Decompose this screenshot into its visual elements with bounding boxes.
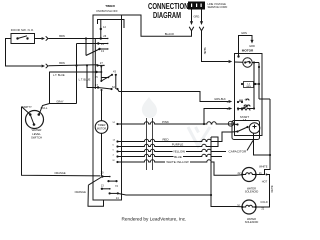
wire FULL contact to GRAY loop [40, 104, 50, 113]
wire pink branch to start switch [204, 122, 232, 124]
svg-text:ORANGE: ORANGE [75, 190, 87, 194]
wire ORANGE loop bottom left [75, 185, 104, 206]
protector right lead [252, 62, 259, 64]
svg-text:MOTOR: MOTOR [97, 128, 106, 131]
water level switch [22, 105, 48, 139]
wire 43 down to 62 [115, 75, 117, 89]
svg-text:SWITCH: SWITCH [31, 136, 42, 140]
blade from branch to 13 [86, 49, 100, 56]
wire branch x86 down to blade [85, 39, 87, 56]
hot water solenoid [238, 168, 268, 194]
cold water solenoid [237, 200, 268, 224]
wire timer motor to terminal 10 [101, 133, 103, 176]
junction pink branch [203, 123, 205, 125]
wire GRN-BLK: terminal 62 to motor terminal 1 [118, 89, 233, 103]
timer motor circle [95, 121, 108, 134]
wire RED to start switch [118, 132, 232, 142]
timer terminal 17 [95, 83, 99, 89]
junction door-branch on BRN upper [85, 37, 87, 39]
svg-text:COLD: COLD [260, 200, 267, 204]
timer terminal 13 lower [101, 184, 111, 190]
svg-text:WHITE: WHITE [259, 164, 268, 168]
wire terminal 24 feed from LT BLUE vertical [77, 43, 99, 45]
svg-text:GRD.: GRD. [194, 15, 201, 19]
svg-text:SERVICE CORD: SERVICE CORD [208, 5, 228, 9]
timer feed dot blue [116, 155, 118, 157]
svg-text:PURPLE: PURPLE [172, 143, 184, 147]
cold solenoid leads [236, 206, 263, 209]
svg-text:WHITE-YELLOW: WHITE-YELLOW [166, 160, 189, 164]
motor box [235, 54, 263, 136]
motor protector circle [243, 58, 252, 67]
label LINE VOLTAGE SERVICE CORD [208, 2, 228, 9]
timer feed dot pink [116, 123, 118, 125]
svg-text:TIMER: TIMER [105, 4, 115, 8]
motor inner vertical right [258, 63, 260, 100]
junction protector-right [253, 61, 255, 63]
wire branch x87 down to terminal 17 [87, 65, 98, 87]
blade 10 exit left [88, 177, 102, 186]
wire BRN lower: door switch to timer terminal 27 [6, 39, 98, 69]
timer feed dot white-yellow [116, 161, 118, 163]
LT BLUE / GRAY loop rectangle [50, 44, 97, 104]
connector chevron right [199, 27, 204, 31]
svg-text:L.T. BLUE: L.T. BLUE [79, 78, 91, 82]
wire 12 to 26 [100, 20, 102, 39]
watermark flame logo [142, 97, 157, 118]
wire WHITE-YELLOW to hot solenoid 22 [118, 160, 237, 176]
svg-text:DIAGRAM: DIAGRAM [153, 11, 181, 20]
wire GRN ground [239, 31, 254, 56]
wire BLACK: timer top to service cord left pin [122, 15, 192, 36]
motor terminal 3 row [227, 106, 256, 111]
motor right side exit to white feed [259, 98, 270, 100]
label CAPACITOR with pointer [229, 141, 254, 154]
svg-text:GRN-BLK: GRN-BLK [214, 97, 226, 101]
wire WHITE feed motor to solenoids [259, 99, 271, 175]
timer contact segment B [107, 180, 117, 182]
svg-text:GRN: GRN [241, 31, 247, 35]
capacitor circle [249, 123, 260, 134]
motor winding squiggle [244, 105, 250, 107]
motor ground dot [237, 55, 239, 57]
timer contact segment D [109, 192, 119, 194]
start switch box [228, 115, 259, 140]
svg-text:KNOB-PUSH OFF: KNOB-PUSH OFF [96, 9, 118, 13]
blade 17 to 62 [98, 88, 112, 90]
svg-text:RED: RED [162, 138, 168, 142]
timer box [93, 15, 122, 200]
wire BRN upper: door switch to timer terminal 26 [35, 34, 101, 41]
svg-text:MOTOR: MOTOR [242, 49, 254, 53]
svg-text:ORANGE: ORANGE [54, 171, 66, 175]
svg-text:DOOR SW. N.O.: DOOR SW. N.O. [11, 28, 35, 32]
timer feed dot purple [116, 145, 118, 147]
watermark V check [188, 127, 210, 146]
motor 1-2 GRN block [241, 82, 259, 89]
timer inner contact bus [94, 39, 96, 90]
timer terminal 10 [101, 171, 111, 178]
timer feed dot yellow [116, 150, 118, 152]
timer terminal 62 [110, 85, 118, 90]
svg-text:CAPACITOR: CAPACITOR [229, 149, 248, 153]
timer inner bus 15-17 [97, 66, 110, 83]
svg-text:SOLENOID: SOLENOID [245, 220, 259, 224]
svg-text:L.T. BLUE: L.T. BLUE [53, 73, 65, 77]
wire BLUE [118, 154, 223, 159]
junction dots on right vertical [258, 66, 260, 68]
door switch DOOR SW. N.O. [11, 28, 35, 44]
svg-text:BLACK: BLACK [165, 32, 175, 36]
blade 15 to 43 [101, 75, 112, 81]
svg-text:BRN: BRN [59, 61, 65, 65]
svg-text:GRN: GRN [246, 86, 251, 88]
timer terminal 12 [100, 25, 107, 30]
protector left lead [235, 61, 243, 63]
timer box inner top ledge [98, 20, 125, 29]
timer terminal 43 [111, 69, 117, 76]
timer terminal 24 [97, 42, 108, 46]
svg-text:HOT: HOT [262, 180, 268, 184]
timer terminal 27 [96, 61, 104, 67]
wire cold feed vertical to cold solenoid 20 [211, 137, 236, 207]
svg-text:BRN: BRN [59, 34, 65, 38]
motor terminal 1 row [227, 99, 249, 104]
service cord plug [188, 2, 205, 10]
service cord lead right with arrow [200, 10, 203, 26]
wire WHITE: service cord right pin to motor [202, 31, 233, 63]
mystery verticals crossing bundle [147, 118, 153, 170]
timer feed dot red [116, 140, 118, 142]
ground GRD symbol [249, 44, 255, 48]
svg-text:Rendered by LeadVenture, Inc.: Rendered by LeadVenture, Inc. [122, 217, 187, 222]
svg-text:GRD: GRD [249, 44, 255, 48]
timer terminal 15 [95, 71, 98, 79]
hot solenoid leads [236, 174, 263, 177]
connector chevron left [189, 27, 194, 31]
svg-text:YELLOW: YELLOW [173, 150, 185, 154]
svg-text:SOLENOID: SOLENOID [245, 190, 259, 194]
motor vertical from protector junction [253, 63, 255, 109]
wire feed to timer motor [101, 90, 103, 121]
bundle terminal tick labels [113, 122, 116, 162]
junction LT BLUE stub on BRN lower [75, 64, 77, 66]
svg-text:BLUE: BLUE [174, 155, 182, 159]
wire ORANGE: EMPTY contact down and right to terminal 10 [22, 107, 101, 176]
capacitor bottom lead [254, 133, 271, 155]
wire BLK-YLW hot21 to cold21 [263, 174, 274, 208]
svg-text:PINK: PINK [162, 120, 169, 124]
wire terminal 14 to cold feed [118, 193, 211, 195]
timer terminal 26 [100, 34, 109, 40]
timer terminal 13 [98, 48, 108, 53]
service cord lead left with arrow [190, 10, 193, 26]
junction cold feed [210, 194, 212, 196]
junction on BRN lower [86, 64, 88, 66]
wire YELLOW [118, 149, 227, 154]
wire PINK to motor terminal 3 and start box [118, 107, 233, 124]
svg-text:GRAY: GRAY [56, 99, 63, 103]
svg-text:START: START [240, 115, 249, 119]
wire PURPLE to cold feed [118, 137, 219, 147]
label TIMER KNOB-PUSH OFF [96, 4, 118, 13]
